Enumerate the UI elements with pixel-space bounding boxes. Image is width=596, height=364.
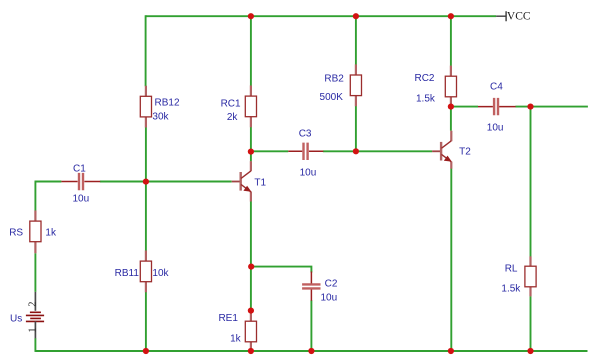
capacitor C3 leads xyxy=(288,150,323,152)
resistor RL leads xyxy=(529,256,531,296)
resistor RC1 leads xyxy=(250,86,252,128)
svg-text:10u: 10u xyxy=(300,167,317,178)
svg-text:500K: 500K xyxy=(320,92,344,103)
svg-text:C2: C2 xyxy=(325,278,338,289)
svg-text:1k: 1k xyxy=(230,333,242,344)
resistor RC2 leads xyxy=(450,66,452,107)
voltage source Us bottom lead xyxy=(34,321,36,338)
svg-text:RL: RL xyxy=(505,264,518,275)
junction node emitter / C2 branch xyxy=(248,264,254,270)
svg-text:T1: T1 xyxy=(254,177,266,188)
junction node RE1 top xyxy=(248,308,254,314)
junction node C1/RB12/RB11 xyxy=(143,179,149,185)
svg-text:10u: 10u xyxy=(73,193,90,204)
resistor RB11 body 10k xyxy=(140,261,151,282)
transistor T1 base lead xyxy=(232,181,240,183)
transistor T2 collector diagonal xyxy=(441,141,451,149)
junction node ground rail at T2 emitter xyxy=(448,348,454,354)
capacitor C4 plates 10u xyxy=(494,98,498,115)
transistor T2 emitter lead xyxy=(450,162,452,169)
capacitor C3 plates 10u xyxy=(304,143,308,160)
wire RC2 column top xyxy=(450,16,452,66)
svg-text:VCC: VCC xyxy=(507,10,531,22)
transistor T1 emitter lead xyxy=(250,192,252,202)
wire C3 to T2 base xyxy=(323,150,432,152)
resistor RC1 body 2k xyxy=(245,96,256,117)
resistor RS body 1k xyxy=(30,221,41,242)
capacitor C4 leads xyxy=(478,106,516,108)
resistor RE1 body 1k xyxy=(245,321,256,342)
resistor RS leads xyxy=(34,211,36,254)
resistor RB2 leads xyxy=(355,64,357,106)
wire input column x=35 xyxy=(34,182,36,211)
svg-text:RC1: RC1 xyxy=(221,98,241,109)
capacitor C2 leads xyxy=(310,272,312,301)
resistor RC2 body 1.5k xyxy=(445,76,456,97)
wire RB2 column top xyxy=(355,16,357,64)
resistor RE1 leads xyxy=(250,311,252,351)
wire C1 to T1 base xyxy=(100,181,232,183)
svg-text:10u: 10u xyxy=(487,123,504,134)
wire RE1 bottom to ground rail xyxy=(250,349,252,351)
transistor T2 base bar xyxy=(440,142,442,161)
junction node T1 collector / C3 xyxy=(248,149,254,155)
wire RB2 bottom to C3 node xyxy=(355,106,357,151)
svg-text:RB11: RB11 xyxy=(115,268,140,279)
junction node RB2 / C3 wire xyxy=(353,148,359,154)
svg-text:RB2: RB2 xyxy=(324,73,344,84)
transistor T2 collector lead xyxy=(450,131,452,142)
svg-text:RE1: RE1 xyxy=(218,313,238,324)
wire left column x=146 (RB12 branch) xyxy=(145,15,147,86)
wire top VCC rail xyxy=(146,15,497,17)
power symbol VCC xyxy=(496,11,506,21)
wire RC2 node to C4 xyxy=(451,106,478,108)
junction node top rail at RB2 xyxy=(353,13,359,19)
svg-text:C4: C4 xyxy=(490,82,503,93)
svg-text:30k: 30k xyxy=(152,112,169,123)
junction node ground rail at RB11 xyxy=(143,348,149,354)
junction node top rail at RC2 xyxy=(448,13,454,19)
wire C1 input horizontal xyxy=(35,181,62,183)
transistor T1 collector diagonal xyxy=(241,171,251,179)
transistor T1 base bar xyxy=(239,172,241,191)
transistor T1 emitter diagonal xyxy=(241,184,251,192)
voltage source Us top lead xyxy=(34,292,36,311)
voltage source Us battery plates xyxy=(26,312,44,321)
junction node ground rail at RL xyxy=(527,348,533,354)
svg-text:1k: 1k xyxy=(45,228,57,239)
wire ground rail xyxy=(35,350,587,352)
wire collector node to C3 xyxy=(251,150,288,152)
svg-text:Us: Us xyxy=(10,313,22,324)
wire RC1 column top xyxy=(250,16,252,86)
transistor T1 emitter arrow xyxy=(243,186,251,192)
wire RC2 bottom node to T2 collector xyxy=(450,107,452,131)
transistor T2 base lead xyxy=(432,150,440,152)
wire RC1 bottom to collector node xyxy=(250,127,252,161)
svg-text:10k: 10k xyxy=(152,268,169,279)
svg-text:RB12: RB12 xyxy=(155,98,180,109)
junction node ground rail at RE1 xyxy=(248,348,254,354)
svg-text:1.5k: 1.5k xyxy=(501,283,521,294)
svg-text:C3: C3 xyxy=(299,129,312,140)
capacitor C1 leads xyxy=(61,181,100,183)
junction node ground rail at C2 xyxy=(308,348,314,354)
junction node output / RL xyxy=(527,104,533,110)
resistor RB12 body 30k xyxy=(140,96,151,117)
wire C2 branch horizontal xyxy=(251,267,312,273)
wire RB11 bottom to ground rail xyxy=(145,292,147,351)
junction node top rail at RC1 xyxy=(248,13,254,19)
wire Us bottom to ground rail xyxy=(34,338,36,352)
wire C4 to output xyxy=(515,106,588,108)
svg-text:C1: C1 xyxy=(73,163,86,174)
svg-text:T2: T2 xyxy=(459,147,471,158)
wire RS bottom to Us xyxy=(34,253,36,292)
svg-text:RS: RS xyxy=(9,228,23,239)
resistor RB2 body 500K xyxy=(350,75,361,96)
wire C2 bottom to ground rail xyxy=(310,300,312,351)
svg-text:RC2: RC2 xyxy=(414,73,434,84)
svg-text:1.5k: 1.5k xyxy=(416,94,436,105)
resistor RB12 leads xyxy=(145,86,147,128)
transistor T2 emitter diagonal xyxy=(441,154,451,162)
capacitor C2 plates 10u xyxy=(302,284,320,288)
wire C1 node down to RB11 xyxy=(145,182,147,251)
resistor RB11 leads xyxy=(145,251,147,293)
transistor T2 emitter arrow xyxy=(444,156,452,162)
wire RL bottom to ground rail xyxy=(530,296,532,351)
wire T2 emitter to ground rail xyxy=(450,169,452,352)
svg-text:1: 1 xyxy=(27,328,38,333)
svg-text:2k: 2k xyxy=(227,112,239,123)
wire RB12 bottom to C1 node xyxy=(145,127,147,182)
junction node RC2 / C4 / T2 collector xyxy=(448,104,454,110)
resistor RL body 1.5k xyxy=(525,266,536,287)
svg-text:2: 2 xyxy=(27,302,38,307)
capacitor C1 plates 10u xyxy=(79,173,83,190)
transistor T1 collector lead xyxy=(250,161,252,171)
svg-text:10u: 10u xyxy=(321,292,338,303)
wire output column RL branch xyxy=(530,107,532,257)
wire T1 emitter down to C2 node and RE1 xyxy=(250,201,252,312)
